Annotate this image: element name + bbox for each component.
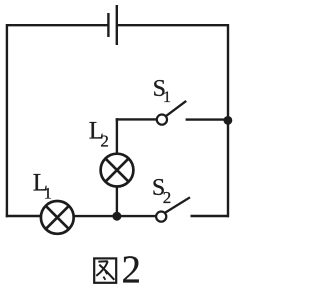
svg-text:2: 2 [122, 248, 142, 291]
svg-text:2: 2 [100, 132, 109, 151]
svg-text:1: 1 [163, 89, 171, 106]
svg-text:2: 2 [163, 188, 172, 207]
svg-text:1: 1 [44, 186, 52, 203]
